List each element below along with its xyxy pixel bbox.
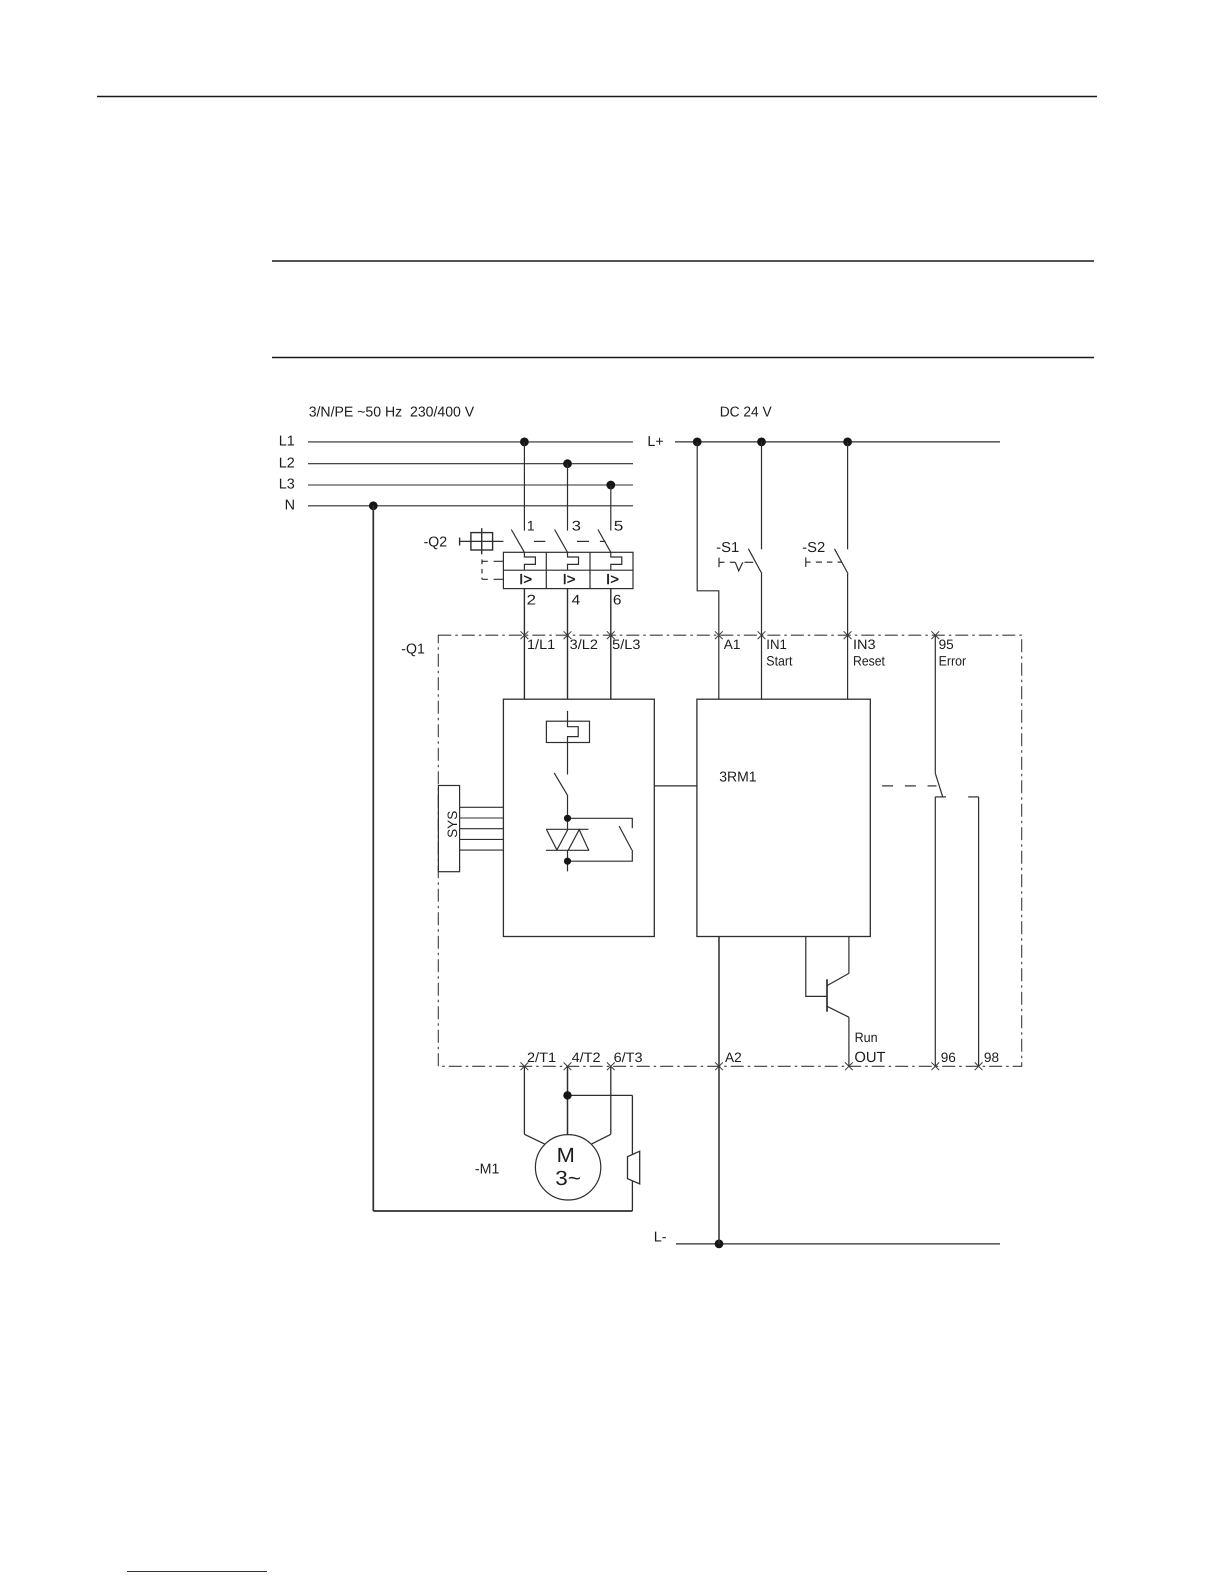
terminal cross IN3 <box>844 631 852 639</box>
Q2 coupling dash a <box>534 540 545 542</box>
svg-text:Run: Run <box>855 1030 878 1045</box>
Q2 body divider pole2/3 <box>589 552 591 588</box>
S1 manual actuator V <box>735 562 743 571</box>
svg-text:M: M <box>557 1144 575 1167</box>
svg-text:3: 3 <box>572 517 581 533</box>
bypass relay blade <box>619 826 632 850</box>
Q2 thermal element pole 1 <box>524 552 535 570</box>
brake solenoid trapezoid <box>628 1151 640 1184</box>
junction dot L1 <box>520 438 529 447</box>
svg-text:L2: L2 <box>279 455 295 471</box>
svg-text:N: N <box>285 497 295 513</box>
Q2 actuator end tick <box>459 538 461 546</box>
Q2 contact blade pole 1 <box>511 530 524 553</box>
S1 actuator dash b <box>745 561 754 563</box>
Q2 trip linkage dashed lower <box>482 578 503 580</box>
link power box to 3RM1 box <box>654 785 697 787</box>
wire 3RM1 to transistor base <box>806 937 827 997</box>
Q2 coupling dash c <box>600 540 606 542</box>
SYS ribbon line 5 <box>460 849 504 851</box>
svg-text:IN1: IN1 <box>766 637 787 652</box>
svg-text:-M1: -M1 <box>475 1161 500 1177</box>
wire 3RM1 to transistor collector <box>848 937 850 974</box>
svg-text:6: 6 <box>613 592 622 608</box>
Q2 body divider horizontal <box>503 569 633 571</box>
triac bottom rail <box>546 849 589 851</box>
terminal cross 96 <box>931 1062 939 1070</box>
triac top rail <box>546 828 588 830</box>
svg-text:SYS: SYS <box>445 811 460 838</box>
svg-text:L+: L+ <box>647 434 663 450</box>
rail L+ <box>675 441 1000 443</box>
terminal cross OUT <box>845 1062 853 1070</box>
bypass branch top <box>568 818 633 828</box>
wire L+ to A1 upper <box>697 442 719 699</box>
wire to terminal 98 <box>978 797 980 1066</box>
junction dot L+ IN3 <box>843 438 852 447</box>
wire L+ to S1 <box>761 442 763 549</box>
wire S1 to IN1 <box>761 574 763 699</box>
S2 actuator dash c <box>838 561 843 563</box>
svg-text:2/T1: 2/T1 <box>527 1050 556 1065</box>
terminal cross 5/L3 <box>607 631 615 639</box>
bypass branch bottom <box>568 850 633 861</box>
motor lead T3 diagonal <box>591 1134 611 1144</box>
brake branch drop <box>631 1095 633 1153</box>
overload release frame <box>546 721 589 742</box>
svg-text:-Q2: -Q2 <box>424 535 448 551</box>
terminal cross IN1 <box>758 631 766 639</box>
page header rule <box>97 96 1097 98</box>
Q2 contact blade pole 2 <box>555 530 568 553</box>
terminal cross 95 <box>931 631 939 639</box>
internal wire triac to output <box>567 850 569 871</box>
svg-text:95: 95 <box>939 637 954 652</box>
section rule upper <box>272 260 1094 262</box>
wire L2 drop to Q2 pole 2 <box>567 464 569 531</box>
svg-text:6/T3: 6/T3 <box>614 1050 643 1065</box>
svg-text:3~: 3~ <box>555 1167 581 1190</box>
junction dot L+ A1 <box>693 438 702 447</box>
wire terminal 2/T1 to motor <box>523 1066 525 1134</box>
svg-text:3/N/PE ~50 Hz 230/400 V: 3/N/PE ~50 Hz 230/400 V <box>309 404 475 420</box>
SYS ribbon line 3 <box>460 828 504 830</box>
wire Q2 pole 2 to terminal 3/L2 <box>567 589 569 700</box>
control section box 3RM1 <box>697 699 870 936</box>
SYS ribbon line 2 <box>460 817 504 819</box>
transistor emitter lead <box>827 1006 849 1017</box>
internal contact blade <box>554 773 568 796</box>
Q2 indicator cross vertical <box>481 528 483 554</box>
S2 actuator dash b <box>827 561 833 563</box>
rail L- <box>676 1243 1000 1245</box>
svg-text:I>: I> <box>563 572 576 588</box>
S2 contact blade <box>835 549 849 574</box>
SYS connector box <box>438 786 459 872</box>
rail N <box>308 505 633 507</box>
svg-text:4: 4 <box>572 592 581 608</box>
svg-text:96: 96 <box>941 1050 956 1065</box>
svg-text:I>: I> <box>606 572 619 588</box>
junction dot N <box>369 501 378 510</box>
svg-text:2: 2 <box>527 592 537 608</box>
svg-text:L1: L1 <box>279 434 295 450</box>
Q2 position indicator square <box>471 533 493 550</box>
svg-text:4/T2: 4/T2 <box>572 1050 601 1065</box>
wire S2 to IN3 <box>847 574 849 699</box>
footer link underline <box>127 1571 267 1573</box>
SYS ribbon line 4 <box>460 838 504 840</box>
terminal cross 98 <box>975 1062 983 1070</box>
wire terminal 6/T3 to motor <box>610 1066 612 1134</box>
svg-text:1/L1: 1/L1 <box>527 637 555 652</box>
transistor collector lead <box>827 973 849 985</box>
internal wire contact to triac node <box>567 796 569 830</box>
motor return horizontal <box>373 1210 632 1212</box>
S1 actuator tick <box>718 558 720 568</box>
Q2 thermal element pole 2 <box>568 552 579 570</box>
motor M1 circle <box>535 1135 600 1200</box>
terminal cross 2/T1 <box>521 1062 529 1070</box>
Q2 actuator lead <box>460 540 504 542</box>
wire Q2 pole 1 to terminal 1/L1 <box>523 589 525 700</box>
svg-text:DC 24 V: DC 24 V <box>720 405 772 421</box>
svg-text:-S1: -S1 <box>716 540 739 556</box>
svg-text:L-: L- <box>654 1230 667 1246</box>
wire terminal 4/T2 to motor <box>567 1066 569 1134</box>
svg-text:3RM1: 3RM1 <box>719 769 756 785</box>
terminal cross A2 <box>715 1062 723 1070</box>
rail L1 <box>308 441 633 443</box>
brake branch horizontal <box>568 1094 633 1096</box>
wire brake to return corner <box>631 1181 633 1211</box>
S2 actuator dash a <box>816 561 822 563</box>
rail L3 <box>308 484 633 486</box>
svg-text:OUT: OUT <box>854 1050 885 1066</box>
junction dot triac top <box>564 815 571 822</box>
transistor Q base bar <box>826 979 828 1011</box>
wire error contact to terminal 96 <box>934 797 936 1066</box>
internal wire overload to contact <box>567 743 569 775</box>
junction dot triac bottom <box>564 858 571 865</box>
rail L2 <box>308 463 633 465</box>
wire A1 box to A2 and L- <box>718 937 720 1244</box>
S2 actuator tick <box>805 557 807 567</box>
terminal cross 1/L1 <box>521 631 529 639</box>
svg-text:1: 1 <box>527 517 535 533</box>
S2 actuator stub <box>806 561 811 563</box>
S1 contact blade <box>748 549 762 574</box>
wire Q2 pole 3 to terminal 5/L3 <box>610 589 612 700</box>
svg-text:L3: L3 <box>279 477 295 493</box>
error NO seat 98 <box>968 796 978 798</box>
terminal cross 4/T2 <box>564 1062 572 1070</box>
svg-text:5: 5 <box>614 517 624 533</box>
svg-text:IN3: IN3 <box>853 637 876 652</box>
svg-text:5/L3: 5/L3 <box>612 637 640 652</box>
Q1 device boundary dash-dot <box>438 635 1021 1066</box>
svg-text:-S2: -S2 <box>802 540 825 556</box>
overload heater path <box>568 721 579 742</box>
triac thyristor down <box>546 829 568 850</box>
wire emitter to terminal OUT <box>848 1017 850 1066</box>
wire terminal 95 to error contact <box>934 635 936 773</box>
Q2 trip linkage dashed vertical <box>481 559 483 579</box>
TEXTS <box>279 404 825 1245</box>
wire L3 drop to Q2 pole 3 <box>610 485 612 531</box>
svg-text:3/L2: 3/L2 <box>570 637 598 652</box>
Q2 thermal element pole 3 <box>611 552 622 570</box>
terminal cross A1 <box>715 631 723 639</box>
svg-text:A1: A1 <box>724 637 741 652</box>
junction dot L+ IN1 <box>757 438 766 447</box>
svg-text:Error: Error <box>939 654 967 669</box>
svg-text:A2: A2 <box>725 1050 742 1065</box>
junction dot brake branch <box>563 1091 571 1099</box>
Q2 trip linkage dashed upper <box>482 560 503 562</box>
terminal cross 6/T3 <box>607 1062 615 1070</box>
terminal cross 3/L2 <box>564 631 572 639</box>
triac thyristor up <box>568 830 589 851</box>
Q2 body divider pole1/2 <box>545 552 547 588</box>
error linkage dash b <box>905 785 916 787</box>
Q2 coupling dash b <box>577 540 589 542</box>
svg-text:I>: I> <box>519 572 532 588</box>
error contact blade <box>935 773 943 797</box>
error linkage dash c <box>928 785 937 787</box>
SYS ribbon line 1 <box>460 806 504 808</box>
junction dot L- A2 <box>715 1240 724 1249</box>
wire L+ to S2 <box>847 442 849 549</box>
power section box <box>503 699 654 936</box>
S1 actuator stub <box>719 561 725 563</box>
Q2 contact blade pole 3 <box>598 530 611 553</box>
error linkage dash a <box>882 785 893 787</box>
junction dot L3 <box>606 481 615 490</box>
error NC seat 96 <box>935 796 946 798</box>
internal wire into overload element <box>567 711 569 721</box>
svg-text:Start: Start <box>766 654 792 669</box>
wire L1 drop to Q2 pole 1 <box>523 442 525 531</box>
motor lead T1 diagonal <box>524 1134 545 1144</box>
svg-text:-Q1: -Q1 <box>401 641 425 657</box>
section rule lower <box>272 357 1094 359</box>
S1 actuator dash a <box>730 561 736 563</box>
svg-text:98: 98 <box>984 1050 999 1065</box>
motor return to N <box>372 506 374 1211</box>
svg-text:Reset: Reset <box>853 654 885 669</box>
Q2 breaker body <box>503 552 633 588</box>
junction dot L2 <box>563 459 572 468</box>
